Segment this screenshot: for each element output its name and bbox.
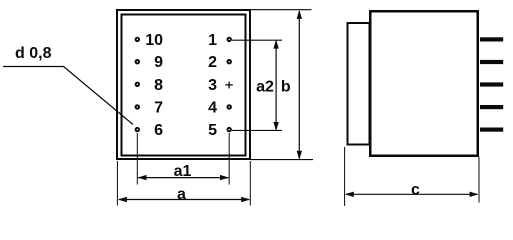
svg-text:1: 1 <box>208 32 217 49</box>
svg-text:4: 4 <box>208 100 217 117</box>
svg-text:6: 6 <box>154 122 163 139</box>
svg-text:c: c <box>411 181 420 198</box>
svg-text:7: 7 <box>154 100 163 117</box>
svg-text:d 0,8: d 0,8 <box>15 45 52 62</box>
svg-text:3: 3 <box>208 77 217 94</box>
svg-text:a2: a2 <box>256 79 274 96</box>
svg-text:b: b <box>281 79 291 96</box>
svg-text:5: 5 <box>208 122 217 139</box>
svg-text:a1: a1 <box>174 163 192 180</box>
svg-text:9: 9 <box>154 54 163 71</box>
svg-text:8: 8 <box>154 77 163 94</box>
svg-text:10: 10 <box>145 32 163 49</box>
svg-text:2: 2 <box>208 54 217 71</box>
svg-text:a: a <box>177 186 186 203</box>
